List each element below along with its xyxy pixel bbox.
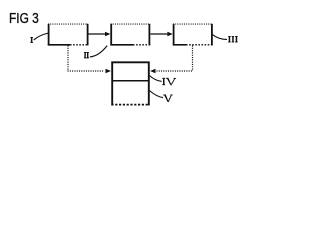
arrow block2 to block3: [151, 32, 173, 36]
label IV with leader: [150, 76, 177, 86]
label V with leader: [150, 91, 173, 102]
block 4/5 (bottom, divided): [111, 62, 149, 106]
label II with leader: [84, 46, 107, 59]
label III with leader: [213, 35, 238, 43]
svg-text:FIG 3: FIG 3: [9, 11, 39, 27]
dotted feedback wire from block3 bottom to block4 right: [150, 46, 192, 74]
dotted feedback wire from block1 bottom to block4 left: [68, 46, 111, 74]
label I with leader: [30, 33, 48, 43]
block 3 (top-right): [173, 24, 213, 46]
block 2 (top-middle): [110, 24, 150, 46]
block 1 (top-left): [48, 24, 88, 46]
divider line between IV and V compartments: [112, 80, 149, 82]
arrow block1 to block2: [89, 32, 111, 36]
